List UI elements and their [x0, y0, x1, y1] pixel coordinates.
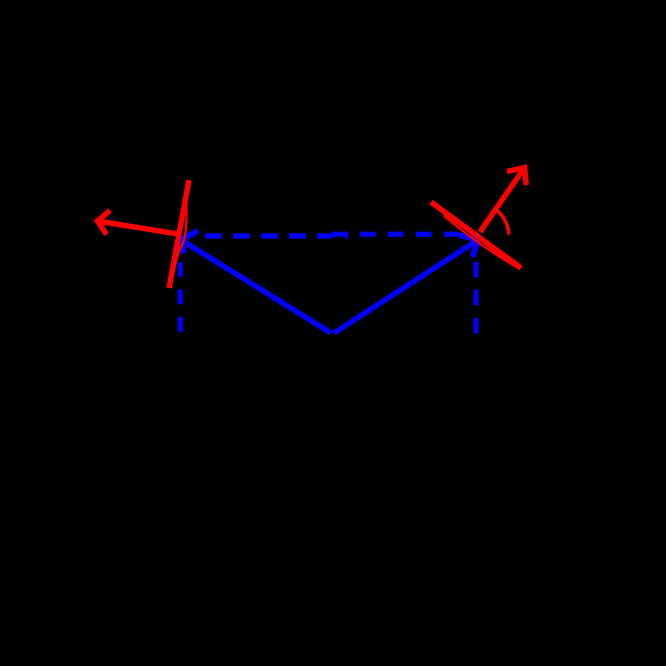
blue trajectory segment from bottom vertex to right contact point: [334, 240, 478, 333]
red tangent line at left contact point: [169, 180, 189, 288]
wire: blue dashed vertical construction line (right), drawn bottom-up: [474, 240, 479, 333]
red thin surface arc at right contact point: [444, 216, 520, 269]
node B: bottom vertex, blue trajectory segment to left contact point: [181, 240, 332, 334]
red angle arc between normal arrow and horizontal at right contact point: [498, 211, 509, 233]
red normal arrow head (right): [507, 168, 526, 186]
wire: blue dashed horizontal construction line at right contact height: [332, 232, 466, 237]
wire: blue dashed horizontal construction line at left contact height: [205, 233, 348, 238]
red normal arrow at left contact point (shaft): [98, 221, 179, 234]
wire: blue dashed vertical construction line (left), drawn bottom-up: [178, 246, 183, 332]
red tangent line at right contact point: [431, 202, 521, 268]
blue arrowhead at right contact point: [460, 235, 479, 257]
red thin surface arc at left contact point: [174, 204, 187, 274]
blue arrowhead at left contact point: [181, 231, 198, 254]
red normal arrow head (left): [98, 211, 111, 235]
red normal arrow at right contact point (shaft): [480, 168, 525, 233]
